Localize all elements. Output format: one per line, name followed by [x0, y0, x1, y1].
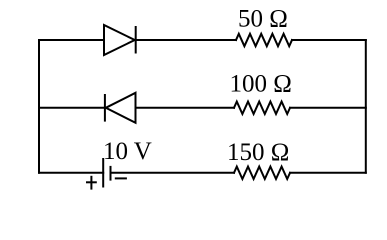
diode D2 (middle, pointing left) — [106, 93, 136, 123]
wire: middle branch middle segment — [136, 107, 235, 109]
diode D2 cathode bar (left) — [104, 95, 106, 121]
wire: bottom branch right segment — [290, 172, 366, 174]
wire: bottom branch middle segment — [111, 172, 235, 174]
battery B1 positive plate (long) — [102, 159, 104, 187]
wire: middle branch right segment — [290, 107, 366, 109]
svg-text:10 V: 10 V — [103, 138, 152, 165]
resistor R3 150 ohm zigzag — [234, 167, 290, 179]
battery B1 negative plate (short) — [110, 167, 112, 180]
diode D1 (top, pointing right) — [104, 25, 135, 55]
resistor R2 100 ohm zigzag — [234, 102, 290, 114]
wire: left vertical — [38, 40, 40, 173]
wire: bottom branch left segment — [39, 172, 103, 174]
battery minus sign — [115, 177, 127, 179]
wire: top branch left segment — [39, 39, 104, 41]
wire: right vertical — [365, 40, 367, 173]
battery plus sign — [86, 181, 97, 183]
svg-text:150 Ω: 150 Ω — [227, 139, 289, 166]
wire: top branch middle segment — [136, 39, 236, 41]
svg-text:100 Ω: 100 Ω — [230, 71, 292, 98]
wire: middle branch left segment — [39, 107, 105, 109]
resistor R1 50 ohm zigzag — [236, 34, 292, 46]
svg-text:50 Ω: 50 Ω — [238, 6, 288, 33]
wire: top branch right segment — [292, 39, 366, 41]
diode D1 cathode bar — [135, 27, 137, 53]
